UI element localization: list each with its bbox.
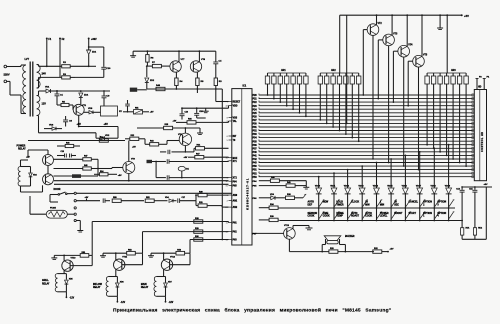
wire AR2.5 to row 12 [345,86,347,135]
svg-text:AR3: AR3 [451,69,456,72]
resistor AR1.5 [291,73,295,86]
wire LED column 3 [347,195,349,222]
wire relay drive [97,159,99,176]
pin P51 IC1 right / wire row 22 [253,169,473,172]
wire inflow to -12V [117,296,126,304]
resistor AR3.1 [425,73,429,86]
wire rail riser AR2 [339,15,341,73]
wire base VT3 [377,40,382,100]
wire emitter VT1 [78,115,80,126]
diode VD4 [165,196,177,203]
wire +5V top rail [340,14,462,16]
svg-text:TAL: TAL [233,120,238,123]
button AUTO COOK [365,212,382,219]
svg-text:RU1: RU1 [466,228,470,230]
pin P33 IC1 right / wire row 12 [253,133,473,136]
wire bus A [54,180,229,182]
wire AR3.2 to row 16 [433,86,435,149]
svg-text:AN2: AN2 [233,206,238,209]
resistor R21 [196,201,229,208]
buzzer BZ1 [324,236,355,244]
resistor R13 [145,139,179,146]
resistor R38 [286,194,307,199]
svg-text:VT12: VT12 [170,257,176,259]
transistor VT2 [367,14,382,35]
pin AN2 IC1 left [226,206,238,209]
pin P27 IC1 right / wire row 8 [253,119,473,122]
svg-text:IC1: IC1 [243,85,247,88]
resistor AR3.5 [451,73,455,86]
wire AR3.5 to row 19 [452,86,454,160]
svg-text:C18: C18 [199,111,202,113]
wire emitter VT3 [388,46,390,164]
svg-text:VT11: VT11 [122,257,128,259]
svg-text:VD14: VD14 [373,184,379,187]
transistor VT12 [43,166,54,185]
resistor array AR2 bus [320,72,358,74]
wire collector VT10 [63,255,65,261]
svg-text:R47: R47 [84,155,87,158]
diode VD10 [315,176,322,195]
zener ZD1 [87,38,97,67]
svg-text:AN1: AN1 [233,200,238,203]
svg-text:POWER: POWER [380,213,389,215]
resistor array AR1 bus [268,72,306,74]
varistor RU3 [123,107,154,114]
svg-text:12V: 12V [42,103,47,106]
diode VD15 [387,158,394,194]
wire pin2 row [76,200,100,202]
resistor RU2 [473,228,482,240]
wire AR2.4 to row 11 [339,86,341,131]
wire mid join [112,137,118,139]
wire AR1.7 to row 7 [305,86,307,117]
resistor R52 [103,250,143,255]
svg-text:POWER: POWER [17,146,26,148]
svg-text:+5V: +5V [464,14,469,18]
svg-text:START: START [409,212,417,215]
wire AR2.7 to row 14 [358,86,360,142]
resistor R30 [194,236,203,241]
pin P23 IC1 right / wire row 4 [253,105,473,108]
svg-text:SEC: SEC [394,204,399,206]
pin 22 connector HD1 [472,169,474,171]
capacitor C11 [469,186,477,228]
resistor R48 [156,84,165,91]
svg-text:ROAST: ROAST [351,215,360,218]
svg-text:VD10: VD10 [315,185,321,187]
pin P43 IC1 right / wire row 20 [253,161,473,164]
button CLOCK [351,200,368,207]
svg-text:+5V: +5V [173,120,177,122]
capacitor CX1 [155,159,228,164]
zener block dark [130,88,147,92]
svg-text:+30V: +30V [91,38,97,41]
resistor AR1.1 [265,73,269,86]
transformer LVT [21,58,41,118]
wire vdd line [182,107,229,109]
crystal B1 [178,166,190,178]
pin BUZ IC1 left [226,158,238,160]
wire rail riser AR3 [446,15,448,73]
fuse thermal [46,208,67,219]
svg-text:AUTO: AUTO [351,212,358,215]
wire AR3.7 to row 21 [465,86,467,167]
svg-text:CANCEL: CANCEL [409,201,419,204]
wire emitter VT5 [418,67,420,171]
svg-text:VD18: VD18 [431,185,437,187]
wire collector VT11 [115,252,117,260]
svg-text:VD12: VD12 [344,185,350,187]
pin AN0 IC1 left [227,194,238,197]
svg-text:PRIME: PRIME [336,213,344,215]
pin 21 connector HD1 [472,165,474,167]
resistor AR2.4 [337,73,341,86]
resistor R51 [54,252,92,257]
svg-text:220V: 220V [4,73,10,77]
transistor VT9 [98,159,136,174]
svg-text:AUTO: AUTO [308,201,315,204]
capacitor C8 [63,116,72,127]
resistor R34 [259,203,278,209]
resistor AR3.4 [444,73,448,86]
wire AR2.1 to row 8 [319,86,321,121]
wire oscillator bottom [147,88,216,90]
svg-text:-12V: -12V [169,302,174,304]
resistor AR1.4 [285,73,289,86]
wire LED column 10 [448,195,450,222]
zener ZD2 [145,65,155,89]
pin P41 IC1 right / wire row 18 [253,154,473,157]
pin 15 connector HD1 [472,144,474,146]
svg-text:DEF: DEF [308,204,313,206]
diode VD3 relay [29,167,37,187]
svg-text:24V: 24V [42,73,47,76]
svg-text:TIMER: TIMER [336,204,343,206]
pin P26 IC1 right / wire row 7 [253,115,473,118]
wire grill to -12V [66,292,75,300]
button SENSOR COOK [308,212,325,219]
pin 2 connector HD1 [472,98,474,100]
wire relay drive 1 [92,222,228,256]
wire base VT4 [393,51,398,103]
transistor VT1 [73,104,87,115]
button TIME COOK [323,212,340,219]
pin P61 IC1 left [226,223,238,225]
terminal F3 [476,77,483,90]
resistor AR2.5 [344,73,348,86]
diode VD11 [330,172,337,194]
pin P65 IC1 left [226,186,238,188]
svg-text:VD5: VD5 [69,279,73,281]
wire reset line [216,89,229,102]
svg-text:Принципиальная электрическая с: Принципиальная электрическая схема блока… [113,307,391,314]
wire secondary top [39,65,62,67]
capacitor C4 [213,51,222,74]
resistor R52 [145,197,167,203]
relay box RY1 [98,106,122,116]
wire bus B [54,183,229,185]
ground C18 [197,108,209,118]
button POWER LEVEL [380,212,397,219]
svg-text:VT3: VT3 [393,33,398,35]
pin XT1 IC1 left [227,161,238,163]
svg-text:+5V: +5V [184,157,188,159]
resistor R20 [195,191,228,200]
pin 1 connector HD1 [472,94,474,96]
svg-text:+5V: +5V [118,175,122,177]
resistor AR2.7 [357,73,361,86]
diode VD16 [402,155,409,195]
resistor RU1 [461,220,470,240]
transistor VT6 [178,127,192,145]
resistor R29 [194,228,203,233]
pin 3 connector HD1 [472,101,474,103]
pin 9 connector HD1 [472,122,474,124]
AC input terminal bottom [4,80,21,95]
diode VD19 [445,144,452,195]
wire emitter VT2 [372,35,374,159]
transistor VT5 [413,14,428,67]
diode VD13 [358,165,365,194]
resistor AR3.3 [438,73,442,86]
button AUTO ROAST [351,212,368,219]
wire AR3.3 to row 17 [439,86,441,153]
svg-text:CLOCK: CLOCK [351,202,360,204]
svg-text:MIN: MIN [380,204,385,206]
diode VD5 [65,274,73,292]
resistor AR3.7 [464,73,468,86]
resistor AR3.6 [457,73,461,86]
svg-text:R51: R51 [135,107,138,109]
pin VDD IC1 left [226,106,238,108]
svg-text:AR1: AR1 [281,69,286,72]
svg-text:VT13: VT13 [284,225,290,227]
pin 6 connector HD1 [472,112,474,114]
wire +5V LED rail [462,186,492,188]
resistor AR1.7 [304,73,308,86]
svg-text:HOLD: HOLD [336,202,343,204]
wire AR1.4 to row 4 [286,86,288,107]
pin 12 connector HD1 [472,133,474,135]
svg-text:GRILL: GRILL [42,280,49,282]
pin 20 connector HD1 [472,161,474,163]
pin 4 connector HD1 [472,105,474,107]
capacitor C18 [194,107,202,118]
wire relay drive 3 [190,240,229,254]
wire AR1.1 to row 1 [267,86,269,96]
svg-text:INFLOW: INFLOW [93,284,103,286]
wire sense row [76,192,232,194]
svg-text:AR2: AR2 [331,69,336,72]
pin P05 IC1 right / resistor R41 [253,181,307,188]
transistor VT11 [114,257,128,271]
button 10 MIN [365,200,382,207]
ground door [76,221,83,233]
svg-text:OPTION: OPTION [437,213,446,215]
svg-text:TIME: TIME [323,213,329,215]
wire base VT2 [362,30,367,96]
svg-text:VSS: VSS [233,118,238,120]
svg-text:INT: INT [233,136,237,138]
wire AR3.6 to row 20 [459,86,461,163]
pin P64 IC1 left [226,180,238,183]
pin P21 IC1 right / wire row 2 [253,98,473,101]
wire pin1 row [67,193,74,195]
wire AR3.1 to row 15 [426,86,428,146]
transistor VT8 [190,50,205,72]
wire xtal common [155,162,157,178]
resistor AR1.6 [297,73,301,86]
wire fuse left [30,213,46,215]
wire LED column 5 [376,195,378,222]
connector pins column [74,192,76,221]
svg-text:OPTION: OPTION [437,202,446,204]
capacitor CX2 [156,175,228,180]
capacitor C15 [103,198,110,203]
pin P50 IC1 right / wire row 21 [253,165,473,168]
svg-text:OPTION: OPTION [423,202,432,204]
resistor AR2.3 [331,73,335,86]
wire AR1.5 to row 5 [292,86,294,110]
resistor AR2.6 [350,73,354,86]
pin 13 connector HD1 [472,137,474,139]
ground grill driver [51,255,57,259]
svg-text:RELAY: RELAY [93,286,101,289]
svg-text:VD16: VD16 [402,185,408,187]
resistor R12 [125,135,145,141]
diode VD6 [116,277,124,297]
svg-text:VD11: VD11 [330,185,336,187]
wire LED column 6 [390,195,392,222]
resistor R46 [57,141,80,147]
resistor R14 [94,170,122,177]
relay coil inflow [93,277,117,297]
resistor AR2.2 [325,73,329,86]
wire base VT12 [170,253,190,265]
button 1 MIN [380,200,397,207]
pin P42 IC1 right / wire row 19 [253,158,473,161]
pin 10 connector HD1 [472,126,474,128]
wire base VT5 [407,61,412,106]
diode VD7 [164,277,172,297]
pin P04 IC1 right / resistor R40 [253,176,307,186]
wire LED column 9 [433,195,435,222]
terminal F4 [483,76,490,90]
pin T0 IC1 left [227,140,236,142]
pin P31 IC1 right / wire row 10 [253,126,473,129]
wire emitter VT10 [63,270,65,273]
pin 14 connector HD1 [472,140,474,142]
transistor VT3 [383,14,398,45]
wire main to -12V [165,296,174,304]
svg-text:BUZZER: BUZZER [345,236,355,238]
label 4MHz [147,160,153,163]
resistor R10v [214,74,222,89]
pin P35 IC1 right / wire row 14 [253,140,473,143]
button AUTO DEF [308,200,325,207]
wire AR2.2 to row 9 [326,86,328,124]
wire AR1.6 to row 6 [299,86,301,114]
ground R15 [197,128,203,135]
wire buzzer emitter [288,239,290,251]
svg-text:DOOR: DOOR [54,189,61,191]
svg-text:R46: R46 [66,141,69,144]
button OPTION 2 [423,200,440,207]
svg-text:VT5: VT5 [423,55,428,57]
wire VT9 up [128,141,130,162]
svg-text:MAIN: MAIN [141,283,147,286]
svg-text:VD19: VD19 [445,185,451,187]
svg-text:R45: R45 [84,164,87,167]
svg-text:HD: HD [478,87,482,89]
svg-text:FUSE: FUSE [50,208,56,210]
resistor AR2.1 [318,73,322,86]
diode VD6 [44,125,62,131]
resistor R17 [184,153,229,159]
resistor AR1.2 [272,73,276,86]
wire AR1.3 to row 3 [279,86,281,103]
svg-text:XT2: XT2 [233,178,238,180]
wire rail riser mid [346,15,348,123]
svg-text:VD17: VD17 [416,185,422,187]
svg-text:-12V: -12V [69,298,74,300]
capacitor C10 [75,47,111,77]
resistor R2 top [61,62,88,68]
pin P36 IC1 right / wire row 15 [253,144,473,147]
wire LED column 8 [419,195,421,222]
button NEW [323,200,340,207]
resistor R50 [112,197,144,203]
wire LED column 2 [333,195,335,222]
svg-text:LEVEL: LEVEL [380,216,388,218]
resistor R15 [137,124,200,130]
capacitor C13 [57,151,76,157]
resistor array AR3 bus [427,72,466,74]
svg-text:VT4: VT4 [408,44,413,47]
label POWER RELAY [17,146,27,151]
pin 23 connector HD1 [472,172,474,174]
diode VD8 [84,108,98,114]
capacitor C17 [178,197,196,203]
wire base VT11 [122,253,143,265]
capacitor C19 [160,150,170,154]
resistor R33 [329,248,338,253]
pin P34 IC1 right / wire row 13 [253,137,473,140]
svg-text:+5V: +5V [132,147,136,149]
ground oscillator [130,51,136,57]
zener ZD4 [79,90,89,104]
svg-text:VDD: VDD [233,106,238,108]
wire AR2.3 to row 10 [332,86,334,128]
pin XT2 IC1 left [227,178,238,180]
pin TAL IC1 left [227,120,238,123]
svg-text:BOOST: BOOST [394,213,403,215]
resistor R16 [173,119,229,125]
svg-text:XT1: XT1 [233,161,238,163]
transistor VT12 [161,257,176,271]
button OPTION 4 [437,212,454,219]
AC input terminal top [4,65,21,68]
svg-text:C16: C16 [185,112,188,114]
svg-text:RU2: RU2 [478,228,482,230]
wire emitter VT12 [163,270,165,277]
pin VSS IC1 left [227,118,238,120]
ground main driver [148,253,154,257]
resistor R3 [39,74,76,79]
relay coil main [141,277,166,297]
wire RU bottom [462,187,486,239]
